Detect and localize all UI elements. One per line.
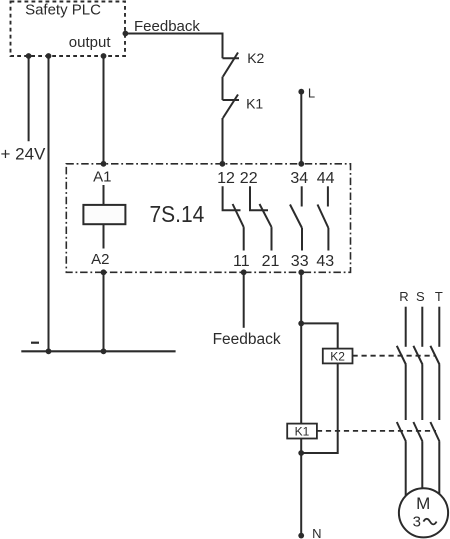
- svg-text:K1: K1: [295, 425, 310, 439]
- node branch junction top: [298, 321, 304, 327]
- wire output to A1: [101, 53, 107, 164]
- contact K2 phase T: [430, 346, 439, 365]
- svg-text:K2: K2: [330, 349, 345, 363]
- node A1: [93, 161, 111, 186]
- phase T wire: [438, 307, 440, 347]
- contact K2 NC (aux): [223, 50, 265, 77]
- svg-text:K2: K2: [247, 50, 264, 66]
- contact K1 phase S: [413, 422, 422, 442]
- contact 44-43 NO: [318, 186, 329, 250]
- svg-text:+ 24V: + 24V: [1, 145, 47, 164]
- phase T wire to motor: [438, 442, 440, 495]
- svg-text:11: 11: [233, 253, 250, 270]
- svg-text:Safety PLC: Safety PLC: [25, 2, 101, 19]
- svg-text:Feedback: Feedback: [213, 331, 281, 348]
- node 33: [291, 253, 309, 275]
- phase S wire to motor: [421, 442, 423, 489]
- svg-text:Feedback: Feedback: [134, 18, 200, 35]
- svg-text:3: 3: [413, 513, 421, 530]
- contact 34-33 NO: [290, 186, 302, 250]
- minus bar (0V): [21, 343, 175, 354]
- contact 12-11 NC: [223, 186, 244, 250]
- svg-text:N: N: [312, 526, 321, 539]
- svg-text:43: 43: [316, 253, 334, 270]
- relay coil: [83, 205, 125, 224]
- wire A1 to coil: [103, 185, 105, 205]
- phase R wire to motor: [405, 442, 407, 497]
- motor M 3~: [399, 488, 448, 537]
- node 34: [290, 161, 308, 187]
- contact K2 phase S: [413, 346, 422, 365]
- contact K2 phase R: [397, 346, 406, 365]
- contactor coil K1: [287, 424, 317, 439]
- phase S wire: [421, 307, 423, 347]
- contact K1 phase T: [430, 422, 439, 442]
- node N: [298, 526, 321, 539]
- dashed link K2 to contacts: [353, 355, 437, 357]
- node A2: [91, 251, 109, 275]
- node L: [298, 85, 315, 100]
- svg-text:22: 22: [240, 170, 258, 187]
- relay module 7S.14 box: [66, 164, 350, 272]
- node +24V wire W1: [26, 53, 32, 141]
- svg-text:34: 34: [290, 170, 308, 187]
- contactor coil K2: [323, 349, 353, 364]
- wire K1 contact down to terminal 12: [222, 118, 224, 164]
- wire between K2 and K1 contacts: [222, 77, 224, 100]
- svg-text:output: output: [69, 34, 112, 51]
- svg-text:S: S: [416, 289, 425, 304]
- phase R wire: [405, 307, 407, 347]
- svg-text:M: M: [416, 494, 430, 513]
- svg-text:21: 21: [262, 253, 280, 270]
- svg-text:A1: A1: [93, 169, 111, 186]
- wire 0V from PLC to minus bar: [46, 53, 52, 351]
- contact 22-21 NC: [250, 186, 272, 250]
- phase T wire mid: [438, 364, 440, 420]
- svg-text:L: L: [308, 85, 315, 100]
- wire Feedback top: [123, 31, 223, 59]
- svg-text:K1: K1: [246, 95, 263, 111]
- wire branch to K2 coil: [301, 323, 338, 348]
- phase R wire mid: [405, 364, 407, 420]
- wire A2 to minus bar: [103, 272, 105, 351]
- svg-text:T: T: [435, 289, 443, 304]
- Safety PLC box: [11, 2, 126, 57]
- svg-text:A2: A2: [91, 251, 109, 268]
- phase S wire mid: [421, 364, 423, 420]
- wire 33 down to N (main neutral line): [300, 272, 302, 535]
- wire coil to A2: [103, 224, 105, 248]
- svg-text:33: 33: [291, 253, 309, 270]
- svg-text:44: 44: [317, 170, 335, 187]
- node 12: [217, 161, 235, 187]
- dashed link K1 to contacts: [317, 430, 436, 432]
- node branch junction bottom: [298, 450, 304, 456]
- node 11: [233, 253, 250, 275]
- wire L to terminal 34: [300, 92, 302, 164]
- contact K1 NC (aux): [223, 95, 264, 119]
- svg-text:R: R: [399, 289, 408, 304]
- wire K2 coil to junction bottom: [301, 363, 338, 453]
- svg-text:7S.14: 7S.14: [150, 201, 205, 227]
- contact K1 phase R: [397, 422, 406, 442]
- wire feedback bottom from 11: [243, 272, 245, 328]
- svg-text:12: 12: [217, 170, 235, 187]
